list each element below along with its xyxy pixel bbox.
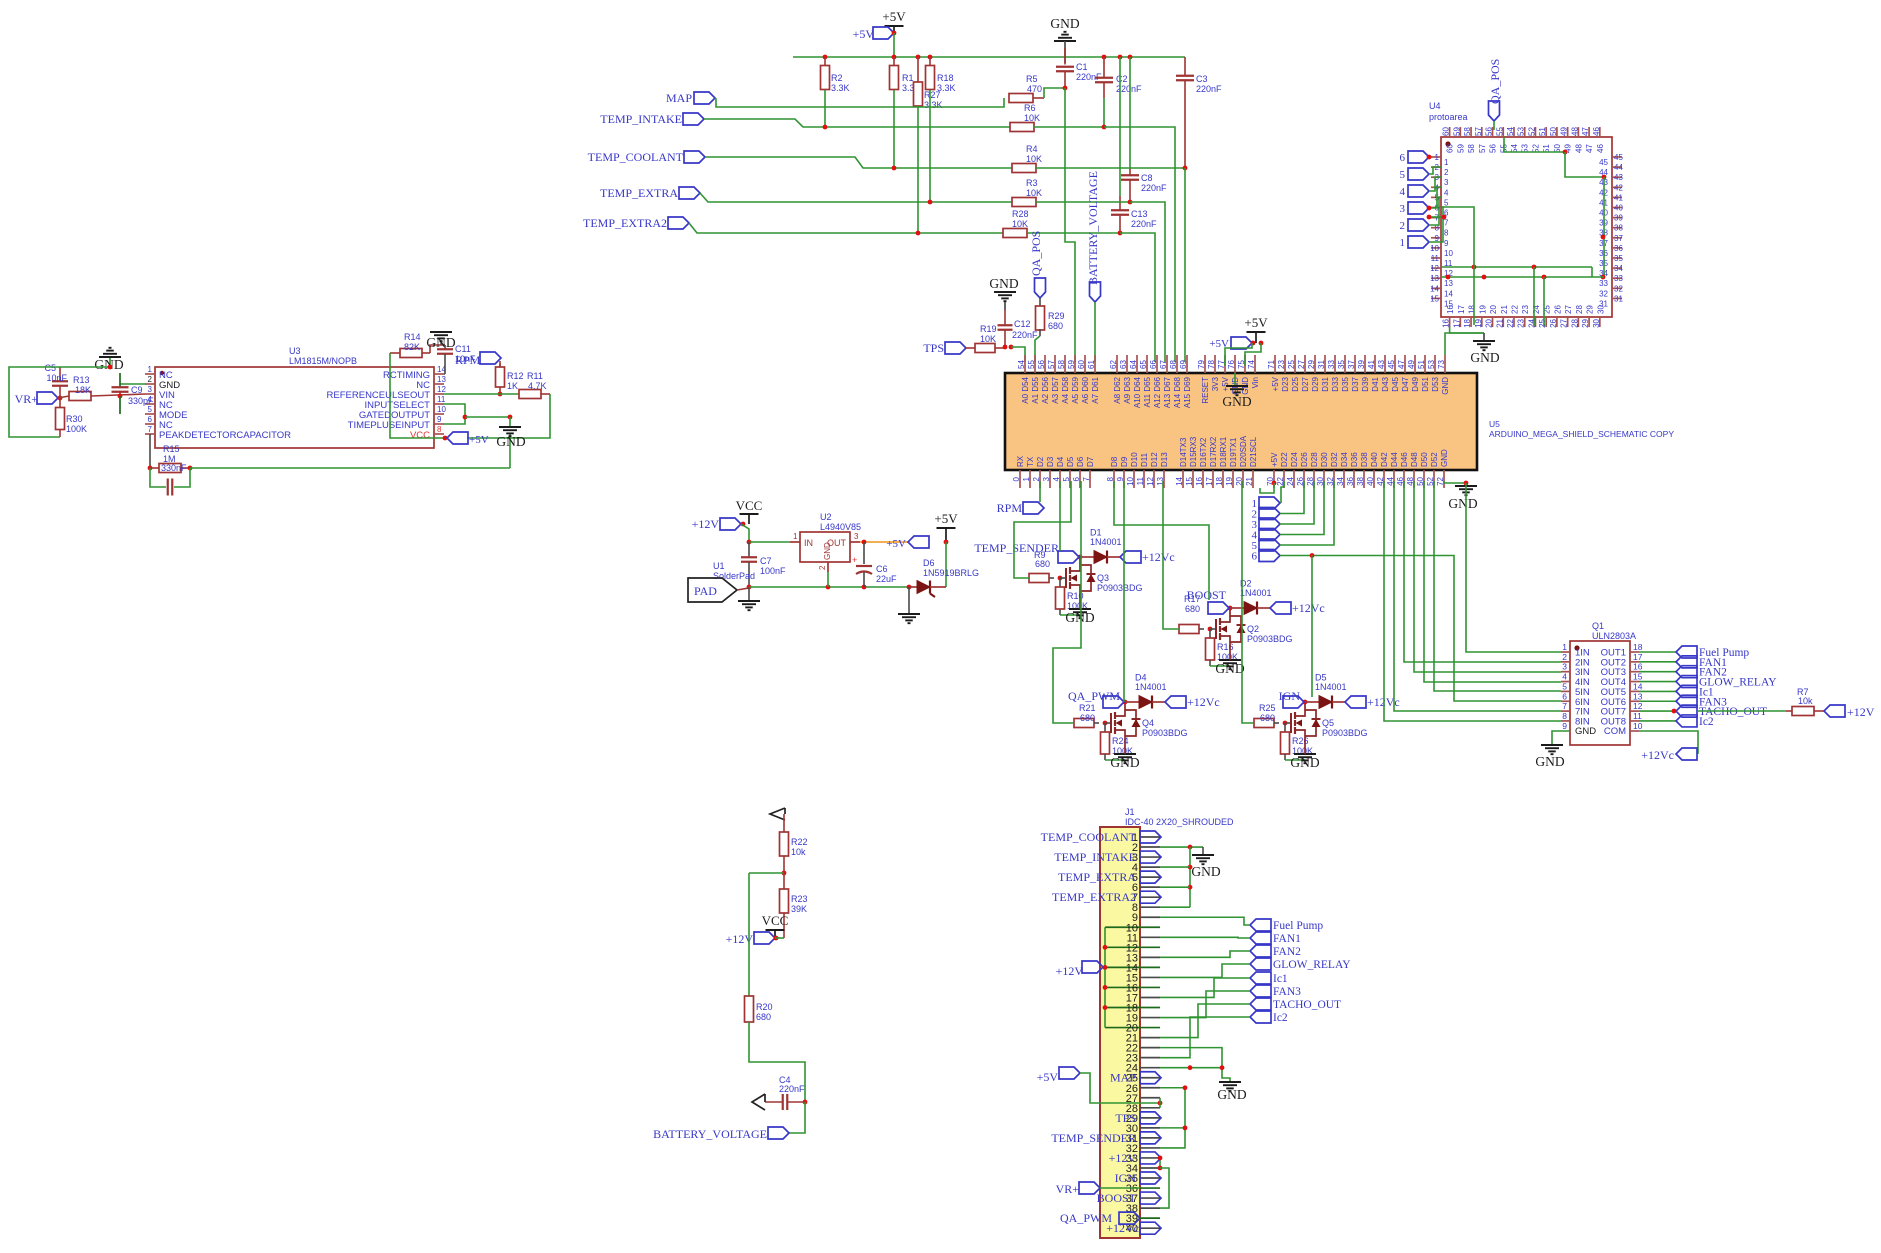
net flag BATTERY_VOLTAGE	[768, 1127, 789, 1139]
wire U5 pin 9 to QA_PWM drain node	[1123, 481, 1125, 702]
wire MAP to C1 and pin 59	[1033, 97, 1044, 99]
svg-text:VR+: VR+	[15, 392, 39, 406]
wire U4 pin 16 to ground	[1450, 327, 1484, 333]
resistor R22	[783, 814, 785, 832]
svg-text:R11: R11	[527, 371, 543, 381]
wire VR+ to J1 row 36	[1100, 1187, 1140, 1189]
capacitor C12	[1004, 310, 1006, 325]
svg-text:47: 47	[1581, 127, 1590, 136]
svg-text:QA_POS: QA_POS	[1488, 59, 1502, 104]
ground GND (left of C5)	[109, 358, 111, 367]
svg-text:3: 3	[148, 385, 153, 394]
capacitor C3	[1184, 57, 1186, 76]
wire U5 pin 70 hook	[1272, 481, 1277, 486]
svg-text:Fuel Pump: Fuel Pump	[1273, 920, 1323, 932]
ground GND (right of R14)	[430, 345, 445, 353]
svg-text:D47: D47	[1401, 376, 1410, 391]
wire J1 rows 34-38	[1160, 1168, 1169, 1208]
svg-text:TEMP_SENDER: TEMP_SENDER	[974, 541, 1059, 555]
svg-text:17: 17	[1452, 318, 1461, 327]
svg-text:59: 59	[1452, 127, 1461, 136]
U5 bottom pin stubs	[1019, 470, 1021, 488]
resistor R13	[58, 396, 69, 398]
svg-text:TEMP_INTAKE: TEMP_INTAKE	[1054, 850, 1136, 864]
svg-text:A15 D69: A15 D69	[1183, 376, 1192, 408]
junction drain node Q2	[1228, 606, 1233, 611]
svg-text:GND: GND	[1110, 755, 1139, 770]
wire MAP net	[715, 98, 1004, 107]
svg-text:8: 8	[437, 425, 442, 434]
svg-text:37: 37	[1347, 360, 1356, 369]
svg-text:D40: D40	[1370, 452, 1379, 467]
svg-text:+12V: +12V	[692, 517, 720, 531]
wire TEMP_EXTRA net	[700, 193, 1012, 202]
svg-text:FAN1: FAN1	[1273, 933, 1301, 945]
svg-text:D49: D49	[1411, 376, 1420, 391]
wire 2IN from U5 pin 46	[1404, 481, 1561, 662]
junction TACHO_OUT node	[1672, 709, 1677, 714]
diode D6 1N5919BRLG	[909, 586, 917, 588]
resistor R18	[929, 57, 931, 65]
svg-text:10k: 10k	[791, 847, 806, 857]
svg-text:17: 17	[1205, 476, 1214, 485]
svg-text:C12: C12	[1014, 319, 1031, 329]
ground GND (Q3 source)	[1069, 608, 1091, 610]
wire +5V to U5 pins	[1225, 343, 1252, 366]
svg-text:8: 8	[1562, 711, 1567, 721]
svg-text:5: 5	[1444, 198, 1449, 207]
svg-text:D52: D52	[1430, 452, 1439, 467]
svg-text:12: 12	[1146, 476, 1155, 485]
svg-text:GND: GND	[1217, 1087, 1246, 1102]
svg-text:57: 57	[1047, 360, 1056, 369]
svg-text:PEAKDETECTORCAPACITOR: PEAKDETECTORCAPACITOR	[159, 430, 291, 441]
svg-text:61: 61	[1087, 360, 1096, 369]
resistor R9 680	[1029, 574, 1049, 583]
U3 right pins	[434, 373, 444, 375]
ground GND (below U4, shared with U5 pin 73)	[1483, 333, 1485, 341]
svg-text:D20SDA: D20SDA	[1239, 435, 1248, 467]
bus flags 1-6 (below U5)	[1259, 497, 1280, 509]
svg-text:46: 46	[1592, 127, 1601, 136]
svg-text:Q4: Q4	[1142, 718, 1154, 728]
svg-text:12: 12	[437, 385, 446, 394]
svg-text:ULN2803A: ULN2803A	[1592, 631, 1636, 641]
svg-text:680: 680	[1048, 321, 1063, 331]
J1 net port flags (right side)	[1140, 831, 1161, 843]
svg-text:D10: D10	[1130, 452, 1139, 467]
svg-text:D12: D12	[1150, 452, 1159, 467]
net flag +12Vc (Q5)	[1345, 696, 1366, 708]
svg-text:15: 15	[1633, 672, 1643, 682]
wire +12V to J1 even rows 10-20	[1103, 966, 1105, 968]
svg-text:D1: D1	[1090, 528, 1102, 538]
svg-text:13: 13	[1444, 279, 1453, 288]
svg-text:220nF: 220nF	[1141, 183, 1167, 193]
svg-text:24: 24	[1286, 476, 1295, 485]
svg-text:31: 31	[1614, 294, 1623, 303]
svg-text:A10 D64: A10 D64	[1133, 376, 1142, 408]
net flag +5V (U3)	[447, 432, 468, 444]
U3 left pins	[145, 373, 155, 375]
wire 4IN from U5 pin 50	[1424, 481, 1561, 682]
svg-text:10K: 10K	[1026, 188, 1042, 198]
wire TEMP_EXTRA to C8 and pin 67	[1036, 201, 1130, 203]
svg-text:D4: D4	[1056, 456, 1065, 467]
net flag +12Vc (Q4)	[1165, 696, 1186, 708]
svg-text:58: 58	[1467, 144, 1476, 153]
junction dots on +5V rail	[823, 55, 828, 60]
net flag +5V (U5)	[1231, 337, 1252, 349]
IC U4 protoarea body	[1441, 137, 1612, 317]
svg-text:1: 1	[1022, 476, 1031, 481]
svg-text:R13: R13	[73, 375, 90, 385]
svg-text:4: 4	[1400, 186, 1406, 198]
svg-text:+5V: +5V	[934, 511, 958, 526]
svg-text:55: 55	[1495, 127, 1504, 136]
svg-text:C6: C6	[876, 564, 888, 574]
ground GND (Q5 source)	[1294, 753, 1316, 755]
svg-text:57: 57	[1474, 127, 1483, 136]
wire U5 pin 13 to R17 gate	[1163, 481, 1179, 629]
svg-text:6: 6	[1072, 476, 1081, 481]
net flag +12V (U2)	[720, 518, 741, 530]
ground GND (Q1)	[1541, 744, 1563, 746]
svg-text:66: 66	[1149, 360, 1158, 369]
svg-text:47: 47	[1585, 144, 1594, 153]
svg-text:R29: R29	[1048, 311, 1065, 321]
svg-text:D53: D53	[1431, 376, 1440, 391]
svg-text:17: 17	[1633, 652, 1643, 662]
net flag +5V	[873, 27, 894, 39]
svg-text:R24: R24	[1112, 736, 1129, 746]
wire U4 pin 6 to interior	[1441, 207, 1474, 325]
svg-text:+5V: +5V	[1037, 1070, 1059, 1084]
svg-text:10: 10	[1633, 721, 1643, 731]
U5 top pin stubs	[1024, 355, 1026, 373]
svg-text:A3 D57: A3 D57	[1051, 376, 1060, 403]
svg-text:48: 48	[1574, 144, 1583, 153]
svg-text:D22: D22	[1280, 452, 1289, 467]
svg-text:GND: GND	[1575, 726, 1596, 737]
resistor R2	[824, 57, 826, 65]
svg-text:TEMP_EXTRA: TEMP_EXTRA	[1058, 870, 1136, 884]
svg-text:C9: C9	[131, 385, 143, 395]
transistor Q4 P0903BDG	[1105, 722, 1111, 724]
net flag RPM	[1023, 502, 1044, 514]
svg-text:29: 29	[1581, 318, 1590, 327]
wire GND rail U2 area	[749, 586, 909, 588]
wire U5 pin 4 to TEMP_SENDER flag	[1059, 481, 1061, 551]
resistor R5	[1009, 94, 1033, 103]
svg-text:D8: D8	[1110, 456, 1119, 467]
svg-text:23: 23	[1277, 360, 1286, 369]
svg-text:73: 73	[1437, 360, 1446, 369]
ground GND (Q2 source)	[1219, 659, 1241, 661]
svg-text:3: 3	[1562, 662, 1567, 672]
svg-text:25: 25	[1287, 360, 1296, 369]
svg-text:220nF: 220nF	[1196, 84, 1222, 94]
svg-text:12: 12	[1430, 264, 1439, 273]
svg-text:100nF: 100nF	[760, 566, 786, 576]
svg-text:64: 64	[1129, 360, 1138, 369]
net flag +12V (J1 left)	[1082, 961, 1103, 973]
svg-text:D37: D37	[1351, 376, 1360, 391]
resistor R6	[1010, 123, 1034, 132]
svg-text:22uF: 22uF	[876, 574, 897, 584]
wire U5 pin 8 to BOOST flag	[1114, 481, 1209, 600]
svg-text:GND: GND	[1215, 661, 1244, 676]
svg-text:D6: D6	[923, 558, 935, 568]
svg-text:R4: R4	[1026, 144, 1038, 154]
svg-text:TEMP_EXTRA2: TEMP_EXTRA2	[1052, 890, 1136, 904]
svg-text:4: 4	[1444, 188, 1449, 197]
svg-text:18: 18	[1633, 642, 1643, 652]
junction drain node Q5	[1303, 700, 1308, 705]
svg-text:10: 10	[1430, 244, 1439, 253]
net flag +12Vc (Q2)	[1270, 602, 1291, 614]
ground GND (Q4 source)	[1114, 753, 1136, 755]
svg-text:D46: D46	[1400, 452, 1409, 467]
svg-text:55: 55	[1027, 360, 1036, 369]
svg-text:26: 26	[1553, 305, 1562, 314]
svg-text:BATTERY_VOLTAGE: BATTERY_VOLTAGE	[1086, 171, 1100, 285]
svg-text:7: 7	[1562, 701, 1567, 711]
svg-text:+5V: +5V	[853, 27, 875, 41]
svg-text:56: 56	[1489, 144, 1498, 153]
svg-text:VCC: VCC	[762, 913, 789, 928]
svg-text:TEMP_COOLANT: TEMP_COOLANT	[588, 150, 684, 164]
svg-text:54: 54	[1017, 360, 1026, 369]
svg-text:680: 680	[756, 1012, 771, 1022]
svg-text:16: 16	[1442, 318, 1451, 327]
svg-text:32: 32	[1599, 289, 1608, 298]
svg-text:52: 52	[1527, 127, 1536, 136]
svg-text:2: 2	[1032, 476, 1041, 481]
svg-text:+5V: +5V	[1244, 315, 1268, 330]
svg-text:18K: 18K	[75, 385, 91, 395]
svg-text:45: 45	[1387, 360, 1396, 369]
svg-text:31: 31	[1317, 360, 1326, 369]
net flag TEMP_SENDER	[1058, 551, 1079, 563]
svg-text:38: 38	[1614, 224, 1623, 233]
svg-text:A1 D55: A1 D55	[1031, 376, 1040, 403]
svg-text:+5V: +5V	[1271, 376, 1280, 391]
svg-text:9: 9	[437, 415, 442, 424]
svg-text:D39: D39	[1361, 376, 1370, 391]
svg-text:QA_PWM: QA_PWM	[1068, 689, 1120, 703]
svg-text:330pF: 330pF	[128, 396, 154, 406]
svg-text:470: 470	[1027, 84, 1042, 94]
svg-text:MAP: MAP	[666, 91, 692, 105]
Q1 input pins	[1561, 651, 1570, 653]
svg-text:2: 2	[818, 565, 827, 570]
svg-text:39K: 39K	[791, 904, 807, 914]
svg-text:A0 D54: A0 D54	[1021, 376, 1030, 403]
svg-text:19: 19	[1225, 476, 1234, 485]
svg-text:D30: D30	[1320, 452, 1329, 467]
IC U3 LM1815M/NOPB body	[155, 367, 434, 448]
svg-text:20: 20	[1489, 305, 1498, 314]
wire +5V down to D6 cathode	[945, 542, 947, 587]
svg-text:3V3: 3V3	[1211, 376, 1220, 391]
svg-text:29: 29	[1586, 305, 1595, 314]
svg-text:+12V: +12V	[1847, 705, 1875, 719]
resistor R24 100K	[1104, 723, 1106, 732]
U4 right pins	[1612, 156, 1622, 158]
svg-text:U3: U3	[289, 346, 301, 356]
svg-text:L4940V85: L4940V85	[820, 522, 861, 532]
svg-text:49: 49	[1560, 127, 1569, 136]
svg-text:100K: 100K	[66, 424, 87, 434]
junction gate node Q2	[1208, 627, 1213, 632]
svg-text:GND: GND	[1535, 754, 1564, 769]
svg-text:3: 3	[1042, 476, 1051, 481]
svg-text:D5: D5	[1066, 456, 1075, 467]
svg-text:D48: D48	[1410, 452, 1419, 467]
svg-text:U2: U2	[820, 512, 832, 522]
svg-text:16: 16	[1633, 662, 1643, 672]
svg-text:48: 48	[1570, 127, 1579, 136]
svg-text:33: 33	[1327, 360, 1336, 369]
svg-text:19: 19	[1478, 305, 1487, 314]
svg-text:D43: D43	[1381, 376, 1390, 391]
svg-text:3: 3	[1400, 203, 1406, 215]
svg-text:7: 7	[148, 425, 153, 434]
svg-text:+12Vc: +12Vc	[1106, 1221, 1139, 1235]
svg-text:74: 74	[1247, 360, 1256, 369]
capacitor C7	[748, 542, 750, 557]
svg-text:TEMP_EXTRA: TEMP_EXTRA	[600, 186, 678, 200]
resistor R1	[893, 57, 895, 65]
svg-text:D38: D38	[1360, 452, 1369, 467]
wire R14 to VCC pin	[390, 353, 444, 438]
net flag TEMP_INTAKE	[683, 113, 704, 125]
wire QA_POS to pin 55	[1035, 336, 1040, 362]
net flag +12Vc (COM)	[1676, 748, 1697, 760]
svg-text:IDC-40 2X20_SHROUDED: IDC-40 2X20_SHROUDED	[1125, 817, 1234, 827]
svg-text:28: 28	[1570, 318, 1579, 327]
svg-text:D15RX3: D15RX3	[1189, 436, 1198, 467]
svg-text:VCC: VCC	[410, 430, 430, 441]
svg-text:P0903BDG: P0903BDG	[1142, 728, 1188, 738]
wire pin12 REFERENCEPULSEOUT	[444, 393, 519, 395]
resistor R25 680	[1254, 719, 1274, 728]
wires J1 rows 9-23 to output flags	[1160, 917, 1250, 925]
svg-text:37: 37	[1614, 234, 1623, 243]
wire GND/1IN vertical (U5 pin 72)	[1466, 483, 1561, 652]
wire +5V rail	[893, 33, 895, 57]
svg-text:GND: GND	[1222, 394, 1251, 409]
svg-text:6: 6	[1252, 551, 1258, 563]
svg-text:R21: R21	[1079, 703, 1096, 713]
svg-text:GND: GND	[1441, 377, 1450, 395]
output flags Fuel Pump / FAN / etc	[1639, 651, 1676, 653]
svg-text:RESET: RESET	[1201, 377, 1210, 404]
svg-text:21: 21	[1245, 476, 1254, 485]
svg-text:18: 18	[1215, 476, 1224, 485]
svg-text:14: 14	[1175, 476, 1184, 485]
svg-text:RPM: RPM	[455, 353, 481, 367]
svg-text:QA_POS: QA_POS	[1029, 231, 1043, 276]
svg-text:46: 46	[1596, 144, 1605, 153]
wire QA_POS to U4 pin 56	[1493, 121, 1495, 130]
svg-text:protoarea: protoarea	[1429, 112, 1468, 122]
IC Q1 ULN2803A body	[1570, 641, 1630, 745]
IC U5 ARDUINO_MEGA_SHIELD body	[1005, 373, 1477, 470]
wire TPS to pin 54	[1011, 347, 1025, 362]
svg-text:Q3: Q3	[1097, 573, 1109, 583]
svg-text:33: 33	[1614, 274, 1623, 283]
svg-text:Ic1: Ic1	[1273, 973, 1288, 985]
wire 5IN from U5 pin 52	[1434, 481, 1561, 691]
wire C4 to BATTERY_VOLTAGE	[789, 1102, 805, 1133]
svg-text:36: 36	[1614, 244, 1623, 253]
svg-text:R5: R5	[1026, 74, 1038, 84]
svg-text:29: 29	[1307, 360, 1316, 369]
svg-text:5: 5	[148, 405, 153, 414]
svg-text:D11: D11	[1140, 452, 1149, 467]
svg-text:R22: R22	[791, 837, 808, 847]
svg-text:21: 21	[1495, 318, 1504, 327]
svg-text:4: 4	[1562, 672, 1567, 682]
wire R20 to C4	[749, 1022, 805, 1102]
svg-text:9: 9	[1562, 721, 1567, 731]
U4 bottom pins	[1449, 317, 1451, 327]
svg-text:TEMP_INTAKE: TEMP_INTAKE	[600, 112, 682, 126]
svg-text:GND: GND	[1191, 864, 1220, 879]
svg-text:40: 40	[1366, 476, 1375, 485]
svg-text:D4: D4	[1135, 673, 1147, 683]
svg-text:D31: D31	[1321, 376, 1330, 391]
svg-text:D36: D36	[1350, 452, 1359, 467]
svg-text:43: 43	[1377, 360, 1386, 369]
svg-text:GND: GND	[94, 357, 123, 372]
capacitor C5	[59, 367, 61, 381]
svg-text:D33: D33	[1331, 376, 1340, 391]
svg-text:LM1815M/NOPB: LM1815M/NOPB	[289, 356, 357, 366]
U2 pin leads	[790, 541, 800, 543]
svg-text:RX: RX	[1016, 455, 1025, 467]
IC U2 L4940V85 body	[800, 532, 850, 562]
svg-text:IN: IN	[804, 538, 813, 548]
svg-text:1K: 1K	[507, 381, 518, 391]
svg-text:14: 14	[1430, 284, 1439, 293]
svg-text:59: 59	[1067, 360, 1076, 369]
ground GND (below PAD/C7)	[748, 587, 750, 601]
capacitor C4	[765, 1101, 783, 1103]
resistor R16 100K	[1209, 629, 1211, 638]
svg-text:15: 15	[1430, 294, 1439, 303]
svg-text:R2: R2	[831, 73, 843, 83]
svg-text:+5V: +5V	[882, 9, 906, 24]
svg-text:A8 D62: A8 D62	[1113, 376, 1122, 403]
junction drain node Q3	[1078, 555, 1083, 560]
svg-text:58: 58	[1057, 360, 1066, 369]
svg-text:+12V: +12V	[1109, 1151, 1137, 1165]
svg-text:220nF: 220nF	[1012, 330, 1038, 340]
svg-text:15: 15	[1185, 476, 1194, 485]
svg-text:76: 76	[1227, 360, 1236, 369]
wire TEMP_COOLANT to C3 and pin 69	[1036, 167, 1185, 169]
svg-text:15: 15	[1444, 299, 1453, 308]
wire VR+ loop	[9, 367, 60, 437]
svg-text:680: 680	[1185, 604, 1200, 614]
svg-text:D26: D26	[1300, 452, 1309, 467]
svg-text:IGN: IGN	[1115, 1171, 1137, 1185]
wire 8IN from U5 pin 42	[1384, 481, 1561, 721]
svg-text:D9: D9	[1120, 456, 1129, 467]
